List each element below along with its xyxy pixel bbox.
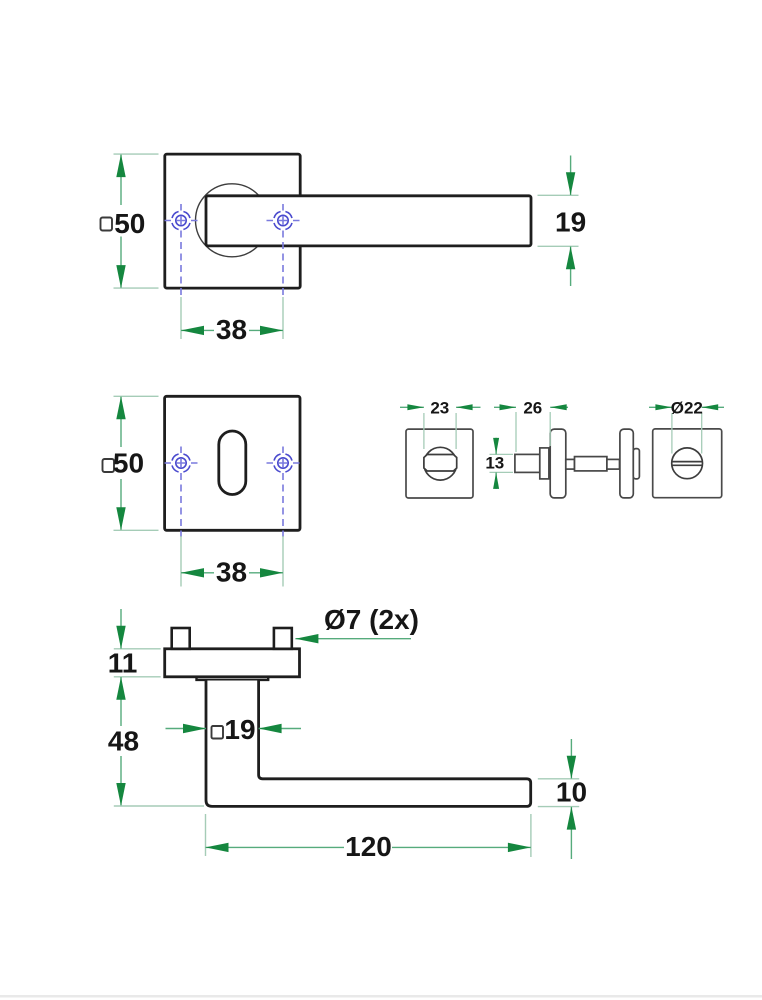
- dim 50 extension lines: [114, 154, 159, 288]
- release pin: [633, 449, 639, 479]
- neck collar step: [197, 677, 269, 680]
- lever bar: [206, 196, 531, 246]
- dim 38 extension lines: [181, 297, 283, 339]
- svg-text:10: 10: [556, 777, 587, 808]
- dim 120 extension lines: [206, 814, 531, 857]
- svg-text:50: 50: [114, 208, 145, 239]
- dim 38 arrows: [181, 326, 204, 335]
- svg-text:11: 11: [108, 648, 138, 679]
- dim 11 arrows: [116, 626, 125, 649]
- rosette plate side: [165, 649, 300, 677]
- dashed center line left: [180, 473, 182, 537]
- dim 19 line: [570, 156, 572, 287]
- dim 23 extension lines: [424, 413, 456, 449]
- dim 22 line: [649, 406, 724, 408]
- lever body side outline: [206, 681, 531, 807]
- dim 120 arrows: [206, 843, 229, 852]
- dim 23 arrows: [407, 404, 424, 410]
- dim 38 arrows: [181, 568, 204, 577]
- svg-text:48: 48: [108, 726, 139, 757]
- screw boss left: [172, 628, 190, 649]
- dim 10 extension lines: [538, 779, 579, 807]
- dim 48 extension line: [114, 805, 204, 807]
- dim 26 extension lines: [516, 412, 550, 452]
- dim 50 line: [120, 155, 122, 288]
- dim 13 extension lines: [490, 454, 514, 472]
- square symbol for 19: [212, 726, 224, 739]
- dim 13 line: [495, 438, 497, 489]
- page footer rule: [0, 995, 762, 998]
- thumbturn grip: [424, 455, 457, 472]
- svg-text:19: 19: [555, 207, 586, 238]
- screw hole center mark right: [267, 204, 300, 229]
- dim 23 line: [400, 406, 481, 408]
- dim 50 arrows: [116, 154, 125, 177]
- dim 50 arrows: [116, 396, 125, 419]
- dim 38 extension lines: [181, 536, 283, 587]
- release circle: [672, 448, 703, 479]
- rosette square (front): [165, 154, 300, 288]
- dim 11/48 line: [120, 609, 122, 806]
- center mark left: [165, 447, 198, 472]
- small square rosette: [406, 429, 473, 498]
- dim 10 arrows: [567, 756, 576, 779]
- dim Ø7 arrow: [295, 634, 318, 643]
- handle neck circle: [196, 184, 269, 257]
- dim 50 extension lines: [114, 396, 159, 530]
- svg-text:13: 13: [485, 454, 504, 473]
- dim 10 line: [570, 739, 572, 859]
- dashed center line right: [282, 231, 284, 298]
- square symbol for 50: [103, 459, 115, 472]
- dim 38 line: [181, 329, 283, 331]
- svg-text:23: 23: [430, 398, 449, 417]
- svg-text:Ø7 (2x): Ø7 (2x): [324, 604, 419, 635]
- dim 22 arrows: [655, 404, 672, 410]
- svg-text:Ø22: Ø22: [671, 398, 703, 417]
- screw boss right: [274, 628, 292, 649]
- dim 19 extension lines: [538, 195, 579, 246]
- dim 120 line: [206, 846, 531, 848]
- dim 19 arrows: [566, 172, 575, 195]
- spindle nub 1: [566, 459, 575, 469]
- svg-text:50: 50: [113, 448, 144, 479]
- turn knob stem: [515, 454, 540, 472]
- svg-text:38: 38: [216, 314, 247, 345]
- svg-text:120: 120: [345, 831, 392, 862]
- dashed center line left: [180, 231, 182, 298]
- dim sq19 arrows: [183, 724, 206, 733]
- keyhole slot: [219, 431, 246, 495]
- spindle shaft: [575, 457, 607, 471]
- dim 11 extension lines: [114, 649, 161, 677]
- screw hole center mark left: [165, 204, 198, 229]
- svg-text:26: 26: [523, 398, 542, 417]
- dashed center line right: [282, 473, 284, 537]
- rosette square (key): [165, 396, 300, 530]
- dim sq19 lines: [166, 728, 302, 730]
- dim 26 line: [494, 406, 568, 408]
- center mark right: [267, 447, 300, 472]
- rosette 1 side: [550, 429, 566, 498]
- dim 48 bottom arrow: [116, 783, 125, 806]
- dim 38 line: [181, 572, 283, 574]
- screw slot: [672, 462, 703, 466]
- svg-text:19: 19: [224, 714, 255, 745]
- thumbturn circle: [424, 447, 457, 480]
- rosette 2 side: [620, 429, 633, 498]
- svg-text:38: 38: [216, 557, 247, 588]
- small square rosette: [653, 429, 722, 498]
- spindle nub 2: [607, 459, 620, 469]
- dim 26 arrows: [500, 404, 517, 410]
- dim 50 line: [120, 397, 122, 530]
- dim Ø7 leader line: [295, 638, 411, 640]
- dim 13 arrows: [493, 438, 499, 455]
- square symbol for 50: [101, 218, 113, 231]
- knob flange: [540, 448, 549, 479]
- dim 22 extension lines: [672, 413, 702, 454]
